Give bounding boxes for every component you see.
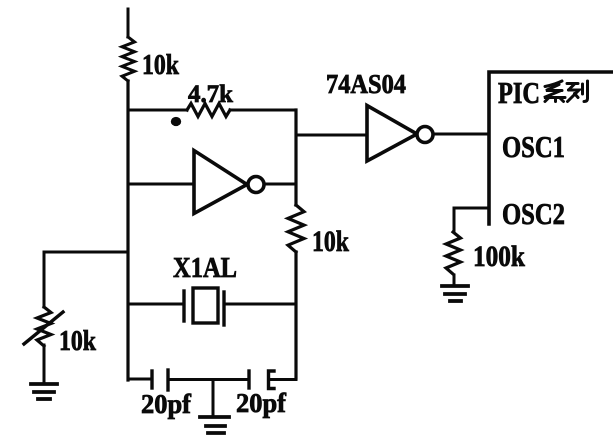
capacitor C1 left plate — [150, 371, 153, 388]
wire left branch horizontal — [44, 251, 128, 254]
wire OSC2 vertical — [453, 208, 456, 232]
wire U1 output — [264, 183, 296, 186]
svg-text:100k: 100k — [473, 240, 525, 273]
wire crystal right — [224, 303, 296, 306]
capacitor C2 right plate — [269, 371, 275, 389]
svg-text:4.7k: 4.7k — [188, 81, 233, 108]
wire bottom middle — [168, 378, 249, 381]
resistor R3 — [288, 205, 304, 252]
wire center ground stub — [212, 380, 215, 416]
ground G1 — [31, 384, 57, 399]
variable resistor R5 — [37, 307, 51, 346]
inverter U1 — [194, 151, 264, 214]
PIC box outline — [489, 72, 613, 224]
wire left branch vertical — [43, 252, 46, 307]
wire R4 to ground — [453, 275, 456, 285]
svg-text:OSC2: OSC2 — [502, 196, 565, 231]
svg-text:74AS04: 74AS04 — [326, 69, 406, 99]
label Chinese lie (series char 2) — [567, 81, 588, 102]
wire U2 input — [296, 134, 367, 137]
wire R5 to ground — [43, 345, 46, 383]
capacitor C2 left plate — [247, 371, 250, 388]
wire top horizontal left — [128, 109, 187, 112]
svg-text:10k: 10k — [142, 49, 180, 81]
crystal X1 right plate — [222, 292, 225, 325]
crystal X1 body — [193, 288, 218, 323]
wire C2 to right vertical — [270, 378, 296, 381]
resistor R1 — [122, 37, 135, 81]
wire top stub — [127, 9, 130, 37]
svg-text:X1AL: X1AL — [173, 252, 237, 284]
wire U1 input — [128, 183, 194, 186]
svg-text:10k: 10k — [59, 326, 96, 357]
resistor R4 — [446, 232, 461, 274]
wire right vertical upper — [294, 110, 297, 205]
wire left vertical — [126, 81, 129, 380]
svg-text:20pf: 20pf — [236, 388, 287, 418]
wire bottom left corner — [128, 378, 152, 381]
svg-text:20pf: 20pf — [141, 389, 192, 419]
svg-text:10k: 10k — [312, 225, 349, 258]
svg-text:PIC: PIC — [498, 75, 540, 110]
wire top horizontal right — [230, 109, 296, 112]
capacitor C1 right plate — [166, 370, 169, 390]
ground G3 — [442, 286, 468, 301]
wire U2 output — [433, 133, 489, 136]
svg-text:OSC1: OSC1 — [502, 129, 565, 164]
resistor R2 — [187, 104, 230, 117]
variable resistor R5 arrow — [24, 312, 63, 344]
inverter U2 74AS04 — [367, 106, 433, 162]
wire crystal left — [128, 303, 184, 306]
wire OSC2 horizontal — [454, 207, 489, 210]
ground G2 — [200, 417, 229, 433]
label Chinese xi (series char 1) — [544, 81, 565, 102]
node A dot — [171, 117, 181, 126]
wire right vertical lower — [294, 252, 297, 378]
crystal X1 left plate — [182, 291, 185, 321]
